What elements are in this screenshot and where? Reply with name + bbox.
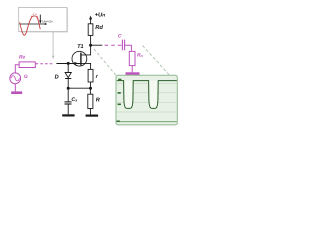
wire R to ground	[89, 109, 91, 115]
source wire	[81, 63, 91, 69]
svg-text:Cэ: Cэ	[71, 97, 77, 103]
scope grid lines	[117, 83, 177, 112]
resistor r	[88, 69, 93, 82]
svg-text:Rd: Rd	[95, 24, 103, 31]
resistor Rn	[129, 51, 135, 65]
gray pointer from inset to base node	[52, 32, 54, 56]
inset dashed ideal peak	[31, 14, 39, 20]
transistor T1 (FET)	[72, 51, 87, 66]
wire r to bus	[90, 82, 92, 88]
svg-text:C: C	[118, 33, 122, 39]
trough highlight 2	[149, 81, 157, 108]
resistor R	[88, 94, 93, 108]
svg-text:Uм=Uп: Uм=Uп	[42, 19, 53, 23]
ground (Ce)	[62, 114, 74, 116]
green dashed probe line 2	[143, 46, 170, 76]
scope waveform	[117, 81, 177, 109]
inset axis arrow	[45, 23, 47, 25]
node collector	[89, 44, 92, 47]
ground (R)	[86, 114, 99, 116]
wire generator to ground	[14, 84, 16, 92]
resistor Rd	[88, 24, 93, 36]
node bus right	[89, 87, 92, 90]
scope axis ticks	[118, 79, 121, 81]
capacitor C	[121, 40, 123, 51]
diode D	[65, 73, 71, 78]
wire node to Rd	[90, 35, 92, 45]
svg-text:G: G	[24, 74, 28, 80]
svg-text:D: D	[55, 74, 59, 80]
node base	[67, 62, 70, 65]
gate arrowhead	[74, 62, 78, 65]
gate wire	[56, 63, 81, 65]
wire Rg to base node (dashed)	[36, 63, 55, 65]
svg-text:T1: T1	[77, 44, 83, 50]
wire Rn to ground	[131, 66, 133, 73]
resistor Rg	[19, 62, 35, 68]
wire output dashed to C	[105, 44, 123, 46]
svg-text:Rн: Rн	[137, 52, 144, 58]
wire bus to Ce	[67, 88, 69, 101]
svg-text:Rг: Rг	[19, 55, 26, 61]
channel bar	[80, 53, 82, 66]
oscilloscope screen	[116, 75, 177, 125]
ground (generator)	[11, 91, 22, 94]
node bus left	[67, 87, 70, 90]
wire generator to Rg	[15, 65, 19, 74]
green dashed probe line 1	[94, 49, 116, 75]
capacitor Ce	[65, 101, 72, 103]
wire bus to R	[89, 88, 91, 94]
wire Ce to ground	[67, 104, 69, 114]
trough highlight 1	[124, 81, 132, 108]
wire diode to bus	[67, 79, 69, 89]
inset waveform box	[20, 9, 68, 33]
wire C to Rn	[125, 45, 132, 51]
ground (Rn)	[126, 72, 140, 75]
wire base node to diode	[67, 63, 69, 72]
svg-text:R: R	[96, 98, 100, 104]
inset axis	[19, 23, 45, 25]
wire node to output (solid part)	[91, 44, 103, 46]
supply arrow +Up	[90, 19, 92, 24]
bottom bus wire	[68, 87, 90, 89]
inset amplitude marker arrow	[39, 15, 41, 21]
inset red waveform	[20, 16, 41, 35]
scope bottom axis	[117, 121, 177, 123]
drain wire	[81, 45, 91, 55]
generator G	[10, 73, 21, 84]
